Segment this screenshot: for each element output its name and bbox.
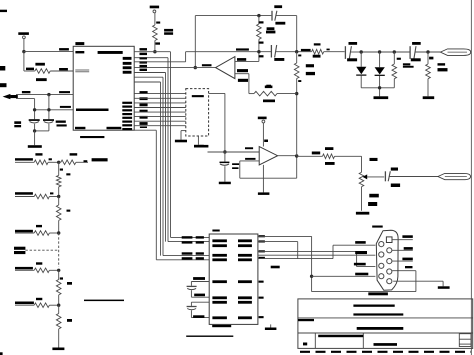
junction top rail / R3 (257, 14, 260, 17)
title text row3 (357, 327, 404, 330)
wire to U4 non-inverting input (208, 151, 260, 153)
capacitor C9 (series on wiper) (385, 171, 438, 181)
net label row2 left (15, 192, 33, 195)
resistor R4 (U3 input, horizontal) (249, 91, 297, 96)
connector J1 DB9 outline (376, 230, 398, 290)
junction dots on y109.8 (33, 108, 51, 111)
wire W-O to pin4L (312, 275, 376, 277)
power symbol VCC1 (top-left) (18, 32, 29, 51)
op-amp U3 feedback top rail y15.6 (195, 15, 271, 17)
C4 label below (274, 58, 284, 61)
net label row3 left (15, 230, 33, 233)
ground GND1 below caps (28, 131, 42, 148)
title text bottom row long (318, 335, 363, 338)
diode D1 (356, 52, 366, 88)
title text row2 (353, 313, 403, 315)
pin tick above R1 (156, 22, 160, 24)
title block line 2 (298, 332, 473, 334)
bus wire V x168 down (167, 58, 169, 242)
R8 ticks (298, 55, 301, 83)
resistor R14 (vertical ladder) (56, 197, 61, 234)
wire down to cap C1 top (34, 99, 36, 120)
page border right edge (470, 0, 472, 355)
capacitor C2 (polarized) (43, 119, 54, 131)
label above U4 -input (245, 158, 255, 160)
label right of U2 pin (y266) (271, 266, 280, 269)
label above R2 (35, 63, 45, 66)
resistor R5 (horizontal on rail) (312, 49, 345, 54)
title block line 1 (298, 317, 473, 319)
C11 label below (193, 315, 204, 318)
net label row6 left (15, 302, 34, 305)
junction R7 (426, 50, 429, 53)
U4 feedback loop (240, 156, 297, 178)
resistor R1 (vertical pull-up) (153, 25, 158, 52)
resistor R11 (59, 160, 88, 165)
junction R1 to bus (153, 50, 156, 53)
ground GND7 below U4 (258, 192, 270, 195)
labels right of C2 (56, 121, 67, 127)
ground GND6 below C7 (219, 182, 231, 185)
wire bend down to trimpot (361, 156, 363, 172)
U3 non-inverting input wire (235, 52, 259, 62)
label below U1 (80, 136, 104, 138)
small label below-right of U3 (266, 85, 271, 87)
R14 value label (67, 210, 71, 212)
bus wire H into U2 (y241.6) (168, 241, 209, 243)
U1 reference label above box (75, 42, 84, 45)
label above pin4R wire (405, 266, 413, 268)
U4 ground stem (262, 165, 264, 193)
capacitor C6 (series, variable) (410, 46, 440, 59)
U1 inside right pin names (lower group) (122, 102, 132, 131)
connector lead J3 (oval, right) (438, 173, 471, 179)
label above R10 (35, 153, 42, 155)
wire W-M to pin3L (357, 266, 376, 268)
IC U1 box (73, 46, 134, 130)
net label above wire (59, 48, 69, 50)
wire X1 right to cap C7 (209, 93, 225, 152)
junction x296.7 at y93.6 (295, 92, 298, 95)
signal rail y51.7 to feedback network (186, 51, 272, 53)
U4 output wire (278, 155, 297, 157)
capacitor C3 (top feedback, variable) (272, 11, 297, 21)
op-amp U4 (right-pointing) (259, 147, 277, 165)
junction R3 bottom (257, 50, 260, 53)
pin label y91 at U1 left (59, 91, 70, 93)
pin label y106 at U1 left (60, 106, 71, 108)
label right of bend (370, 158, 378, 161)
title block divider v1 (314, 333, 316, 348)
C9 label above (391, 168, 398, 171)
J1 pin1 square (386, 237, 392, 243)
U1 inside bottom labels (75, 127, 121, 129)
title block divider v2 (362, 333, 364, 348)
R5 label below (313, 55, 321, 58)
wire down to cap C2 top (48, 95, 50, 120)
ladder tick 2 (60, 277, 63, 279)
caps bottom rail (33, 129, 49, 132)
label above U4 +input (245, 147, 253, 149)
resistor R6 (vertical) (392, 52, 397, 88)
feedback vertical x195.3 (194, 16, 196, 68)
U4 power bar (258, 117, 267, 120)
U1 right pin net labels (lower group) (140, 91, 148, 125)
title text row1 (353, 305, 394, 307)
underline label below U2 (186, 336, 233, 337)
net label row5 left (15, 267, 33, 270)
wire VCC1 to U1 pin (y52) (24, 51, 73, 53)
sheet cell box (459, 334, 471, 347)
wire caps top rail to U1 (y109.8) (35, 109, 74, 111)
bus wire H into U2 pin (y237.4) (171, 236, 210, 238)
left edge net label (0, 83, 7, 87)
label above R15 (36, 225, 42, 227)
page corner mark bottom-left (0, 352, 3, 355)
label below RV1 right (369, 194, 379, 198)
bus wire H into U2 (y255.6) (163, 255, 209, 257)
resistor R9 (horizontal) (323, 154, 362, 159)
wire+resistor R16 row5 (15, 268, 59, 273)
wire U1 pin y82 to bend (134, 81, 160, 83)
wire+resistor R18 row6 (15, 303, 59, 308)
capacitor C11 (left of U2) (187, 302, 210, 317)
wire U1 pin y52 to bend (134, 51, 170, 53)
J1 left column pins (379, 242, 384, 279)
resistor R19 (vertical ladder bottom) (56, 305, 61, 347)
rail y52 right section (361, 51, 410, 53)
resistor R2 (horizontal, top-left) (24, 69, 73, 74)
trimmer RV1 (vertical with wiper arrow) (359, 172, 384, 186)
wire U1 bottom corner step (134, 129, 156, 131)
U1 inside right pin names (upper group) (123, 57, 132, 74)
perforation dashed line (300, 351, 471, 353)
J1 pin3R stub wire (392, 260, 413, 262)
R7 tick (429, 57, 433, 60)
wire arrow lower (y98.6) (16, 98, 35, 100)
R8 value labels (306, 64, 315, 75)
wire C4 to junction x296.7 (276, 51, 312, 53)
labels left of C1 (14, 121, 21, 127)
U2 right pin ticks (259, 235, 265, 318)
diode D2 (375, 52, 385, 88)
R5 label above (314, 43, 321, 45)
title block outer box (298, 299, 473, 349)
capacitor C8 plates (by U4 input) (232, 163, 239, 169)
resistor R12 (vertical ladder) (56, 162, 61, 196)
R1 value labels (164, 29, 173, 35)
J1 pin1 stub wire (392, 239, 413, 241)
resistor R17 (vertical ladder) (56, 270, 61, 305)
wire row1 (15, 161, 34, 163)
U4 power pin circle (262, 120, 265, 146)
capacitor C1 (polarized) (29, 119, 40, 131)
wire U4 out to R9 (297, 155, 323, 157)
left edge net label (y66) (0, 66, 5, 71)
bus wire V x156.3 down (155, 130, 157, 260)
wire W-B vertical (310, 236, 313, 291)
wire arrow to U1 (y94.6) (16, 94, 73, 96)
tick right of R13 (50, 192, 53, 194)
ground GND11 right of J1 (438, 286, 450, 289)
label at junction right (301, 49, 311, 51)
label above pin3R stub (402, 258, 412, 261)
wire W-L vertical (356, 252, 358, 267)
capacitor C10 (left of U2) (187, 282, 210, 298)
resistor R3 (vertical feedback) (257, 16, 262, 52)
C5 label above (349, 42, 358, 45)
U2 left pin net labels (182, 236, 204, 259)
C6 label above (412, 42, 421, 45)
op-amp U3 (left-pointing) (216, 57, 235, 79)
U1 inside top-left label (75, 51, 84, 53)
tick right of R10 (49, 158, 52, 160)
wire U1 pin y57.7 to bend (134, 57, 168, 59)
R4 value label below (263, 100, 275, 103)
wire W-N to pin2L (258, 254, 376, 256)
U1 lower right pin wires to dashed header (134, 94, 186, 126)
net label row1 right (92, 158, 108, 161)
U4 power pin label (264, 140, 268, 143)
ladder tick 1 (60, 169, 63, 171)
junction U3 output (194, 66, 197, 69)
U2 reference label above (212, 230, 219, 232)
wire junction down to C7 (224, 152, 226, 162)
wire W-F (258, 241, 298, 243)
wire R10 to junction (48, 161, 60, 164)
capacitor C7 (polarized) (220, 162, 230, 182)
R17 value label (67, 282, 72, 285)
ground GND2 below clamp (374, 86, 389, 99)
value label right of R2 (59, 68, 68, 70)
label U3 -input (237, 69, 248, 72)
wire+resistor R13 row2 (15, 194, 59, 199)
wire W-I vertical (332, 245, 334, 258)
junction U4 output node (295, 154, 298, 157)
X1 inside label (192, 95, 204, 97)
capacitor C4 (on signal rail, variable) (271, 45, 276, 58)
R3 value labels (266, 27, 275, 33)
wire W-A (258, 235, 312, 237)
label above arrow wire (22, 91, 31, 93)
connector lead J2 (oval, top right) (440, 49, 470, 56)
net arrow (left edge) (3, 94, 18, 99)
junction A1 (47, 93, 50, 96)
label above R16 tick (36, 262, 42, 264)
U2 inside pin name bars (212, 239, 252, 319)
R9 labels (312, 147, 335, 165)
junction row2 (57, 195, 60, 198)
wire W-C under connector (312, 291, 416, 293)
wire W-J to pin1L (333, 244, 375, 246)
dashed ladder segment (58, 233, 60, 267)
wire W-D vertical (415, 271, 417, 292)
U4 inverting input wire (240, 160, 259, 162)
J1 right column pins (387, 248, 392, 284)
DB9 left net labels (354, 241, 368, 275)
C9 label below (391, 184, 400, 188)
label U3 +input (237, 58, 246, 61)
net label on U3 output (202, 64, 212, 66)
extra net label pair under lower group (140, 127, 147, 129)
label below U3 -input (238, 79, 248, 82)
wire VCC1 stem down (23, 52, 25, 71)
bus wire H into U2 (y259.8) (156, 259, 209, 261)
junction diodes/resistors (360, 50, 396, 53)
J1 pin2R stub wire (392, 249, 413, 251)
net label row1 left (15, 158, 33, 160)
C6 label below (411, 58, 421, 61)
label below R2 (36, 78, 47, 81)
U2 part label below box (212, 325, 231, 327)
bus wire V x170.5 down to U2 (170, 52, 172, 238)
resistor R7 (vertical) (426, 52, 431, 96)
C5 label below (347, 58, 357, 61)
junction row6 (57, 304, 60, 307)
ground GND5 (below X1) (194, 136, 204, 148)
label above pin1 stub (402, 235, 412, 238)
junction C7 top (223, 150, 226, 153)
pin tick below R1 (155, 42, 160, 44)
vertical x296.7 with resistor R8 (294, 52, 299, 156)
capacitor C5 (series on rail) (345, 46, 361, 59)
U1 inside top long label (98, 51, 123, 54)
resistor R10 (34, 160, 48, 165)
R3 pin ticks (259, 21, 264, 43)
bus wire V x165.5 down (165, 73, 167, 242)
sheet label top-left corner (0, 10, 7, 12)
R5 tick right (327, 49, 330, 51)
R6 tick (397, 58, 401, 60)
bus wire V x160.5 down (160, 82, 162, 256)
net label above signal rail (236, 48, 249, 50)
wire U1 pin y62 jog up to signal rail (134, 52, 185, 62)
U1 inside mid long label (76, 109, 109, 112)
net label left of U4 + wire (200, 145, 209, 148)
R6 value labels (403, 63, 414, 67)
C10 label above (193, 277, 205, 280)
junction on VCC1 stem (22, 50, 25, 53)
label above R11 (70, 153, 78, 155)
J1 label above (372, 226, 383, 228)
wire U1 pin y67.6 to U3 output (134, 67, 215, 69)
rev cell text (303, 343, 307, 346)
U3 inverting input wire (235, 74, 249, 94)
dashed module X1 (186, 89, 209, 136)
C10 label below (194, 294, 205, 297)
junction row3 (57, 231, 60, 234)
ground GND8 below RV1 (356, 212, 369, 215)
bottom rail of clamp network (361, 87, 394, 89)
ground GND9 ladder bottom (52, 348, 64, 351)
label above R18 (36, 298, 42, 300)
net stub line (mid-left) (84, 300, 124, 302)
dashed net label rows (14, 247, 25, 254)
R12 value label (66, 173, 70, 175)
wire W-E pin4R (392, 270, 416, 272)
label left of R2 (26, 68, 34, 71)
ground GND3 (423, 96, 435, 99)
RV1 bottom stem (361, 187, 363, 211)
wire W-G vertical (297, 242, 299, 259)
U1 clock pin marker (75, 70, 89, 72)
title text left under line1 (298, 319, 314, 321)
dashed wire row4 (25, 249, 58, 251)
junction row5 (57, 269, 60, 272)
wire W-H (258, 258, 333, 260)
J1 label below (thick) (368, 292, 388, 295)
feedback vertical x296.7 (top) (295, 16, 298, 54)
label right of RV1 stem (368, 202, 377, 206)
ground GND4 (left of X1) (175, 131, 187, 143)
wire U1 pin y72.5 to bend (134, 72, 165, 74)
U1 right pin net labels (upper group) (140, 48, 148, 71)
R4 label above (265, 86, 273, 89)
R19 value label (67, 319, 72, 322)
C4 tick below (259, 55, 264, 57)
R7 value labels (438, 63, 448, 71)
C3 label above (274, 5, 282, 8)
IC U2 box (209, 234, 258, 324)
power symbol VCC2 (top-middle) (150, 6, 159, 25)
date text bottom (374, 343, 398, 346)
C3 label below (275, 22, 285, 25)
wire W-K (258, 251, 357, 253)
tick right of R11 (84, 160, 88, 162)
label above pin2R stub (404, 247, 413, 250)
wire+resistor R15 row3 (15, 231, 59, 236)
bus wire V x163 down (162, 77, 164, 255)
ground GND10 below U2 (265, 324, 277, 330)
J1 pin5R ground wire (393, 281, 443, 286)
wire U1 pin y77.2 to bend (134, 76, 163, 78)
